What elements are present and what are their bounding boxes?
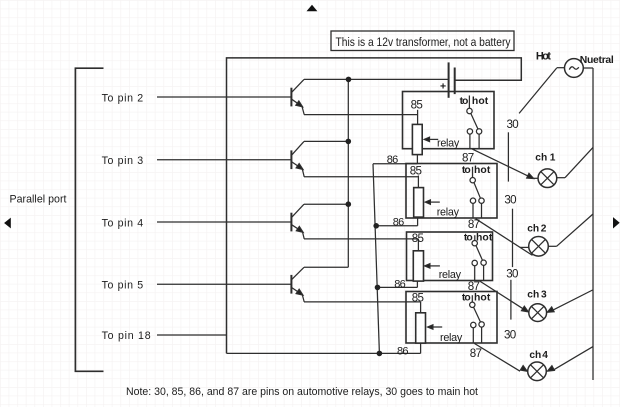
svg-text:4: 4 [542, 350, 548, 361]
relay4 box [406, 292, 497, 344]
svg-text:30: 30 [504, 329, 516, 342]
relay4 pin85 stub [420, 302, 422, 313]
relay1 pin30 contact [467, 108, 472, 113]
lamp ch1 [538, 169, 557, 188]
svg-text:ch: ch [527, 223, 539, 234]
wire pin3 base [157, 159, 291, 161]
svg-text:hot: hot [476, 233, 493, 244]
svg-text:To pin 4: To pin 4 [102, 217, 144, 229]
relay3 box [407, 232, 493, 281]
svg-text:87: 87 [462, 152, 474, 165]
svg-text:to: to [462, 293, 471, 304]
wire Q3 emitter to relay3 pin85 [304, 238, 418, 240]
svg-text:hot: hot [472, 96, 489, 107]
wire relay4 87 to lamp ch4 [474, 343, 520, 371]
relay1 coil [412, 124, 422, 154]
svg-text:to: to [462, 165, 471, 176]
relay3 pin87 contact [472, 260, 477, 265]
wire ch3 to neutral [551, 290, 593, 311]
AC source circle [565, 59, 584, 78]
svg-text:relay: relay [439, 269, 462, 281]
relay4 switch arm [474, 307, 481, 322]
viewer arrow left [4, 218, 11, 229]
relay3 coil [413, 251, 423, 281]
svg-text:85: 85 [412, 292, 424, 305]
svg-text:86: 86 [397, 346, 409, 358]
relay3 arrow [428, 265, 440, 267]
relay4 arrow [430, 326, 442, 328]
wire relay2 87 to lamp ch2 [476, 219, 533, 256]
relay1 coil-to-86 stub [416, 155, 418, 164]
junction node bottom common [377, 351, 383, 357]
relay4 to-hot stub [471, 295, 473, 302]
svg-text:relay: relay [440, 332, 463, 344]
svg-text:86: 86 [393, 216, 405, 228]
relay1 pin87a stub [478, 134, 480, 149]
wire collector bus (left) [347, 79, 349, 267]
svg-text:86: 86 [394, 279, 406, 291]
parallel port bracket [75, 68, 103, 371]
wire ch2 to neutral [557, 214, 593, 246]
svg-text:87: 87 [468, 218, 480, 231]
wire 30 bus segment 3 [510, 280, 512, 320]
junction node relay2 86 [373, 223, 379, 229]
relay1 to-hot stub [468, 96, 470, 109]
wire 30 bus segment 1 [507, 132, 509, 181]
wire relay3 pin86 [378, 286, 418, 288]
svg-text:Parallel port: Parallel port [10, 194, 67, 206]
wire ch4 to neutral [554, 347, 594, 370]
relay1 pin87 contact [467, 129, 472, 134]
junction node relay3 86 [375, 285, 381, 291]
wire ch2 right stub [548, 245, 556, 247]
wire ch1 to neutral [565, 147, 593, 177]
junction node Q2 collector [346, 139, 352, 145]
wire 86 bus (right, slanted) [373, 164, 379, 354]
wire AC right stub [583, 67, 593, 69]
wire Q2 collector [304, 140, 348, 142]
relay1 pin85 stub [417, 110, 419, 125]
wire hot diagonal [519, 68, 557, 113]
junction node Q1 collector / +12 [346, 77, 352, 83]
svg-text:30: 30 [506, 268, 518, 281]
svg-text:Nuetral: Nuetral [580, 55, 614, 66]
wire relay1 pin86 [373, 163, 417, 165]
wire bottom common to relay4 pin86 [227, 352, 421, 354]
svg-text:87: 87 [468, 280, 480, 293]
svg-text:This is a 12v transformer, not: This is a 12v transformer, not a battery [336, 35, 512, 49]
svg-text:3: 3 [541, 290, 547, 301]
wire ch1 right stub [557, 177, 565, 179]
wire Q1 emitter to relay1 pin85 [304, 114, 418, 116]
svg-text:30: 30 [507, 118, 519, 131]
wire pin18 to common box [157, 334, 227, 336]
relay3 pin87 stub [474, 266, 476, 281]
wire 30 bus segment 2 [512, 209, 514, 267]
relay1 box [403, 92, 495, 149]
wire +12V rail: Q1 collector to battery positive [304, 78, 449, 80]
relay2 to-hot stub [472, 167, 474, 178]
lamp ch2 [529, 237, 549, 257]
relay3 coil-to-86 stub [416, 281, 418, 287]
relay2 arrow [428, 201, 440, 203]
wire pin4 base [157, 221, 291, 223]
svg-text:to: to [464, 233, 473, 244]
battery plate positive [448, 62, 450, 97]
svg-text:relay: relay [437, 206, 460, 218]
relay2 pin85 stub [417, 176, 419, 188]
wire Q4 collector [304, 266, 348, 268]
wire Q3 collector [304, 203, 348, 205]
lamp ch3 [529, 304, 547, 322]
relay4 pin30 contact [470, 302, 475, 307]
relay2 pin87a stub [481, 203, 483, 218]
wire Q2 emitter to relay2 pin85 [304, 176, 418, 178]
junction node Q3 collector [346, 201, 352, 207]
wire relay3 87 to lamp ch3 [480, 281, 525, 310]
lamp ch4 [528, 362, 547, 381]
svg-text:Note: 30, 85, 86, and 87 are p: Note: 30, 85, 86, and 87 are pins on aut… [126, 386, 478, 398]
wire ch1 left stub [533, 177, 538, 179]
AC sine glyph [569, 67, 579, 70]
relay2 switch arm [474, 183, 480, 199]
relay3 to-hot stub [474, 235, 476, 240]
svg-text:85: 85 [412, 232, 424, 245]
transistor Q3 [291, 204, 304, 239]
svg-text:ch: ch [529, 350, 541, 361]
wire pin5 base [157, 283, 291, 285]
relay2 pin87a contact [479, 198, 484, 203]
svg-text:85: 85 [411, 99, 423, 112]
wire ch2 left stub [520, 246, 529, 248]
relay1 arrow [427, 138, 438, 140]
transistor Q1 [291, 79, 304, 114]
relay2 coil [414, 188, 424, 218]
svg-text:30: 30 [504, 193, 516, 206]
relay4 pin87 stub [472, 328, 474, 343]
svg-text:Hot: Hot [536, 51, 551, 63]
wire Q4 emitter to relay4 pin85 [304, 301, 421, 303]
note box around transformer text [331, 31, 514, 51]
svg-text:To pin 5: To pin 5 [102, 280, 144, 292]
wire common: big box from bottom-left up, across top, down to battery negative [227, 58, 522, 354]
wire pin2 base [157, 96, 291, 98]
relay4 pin87 contact [471, 322, 476, 327]
relay4 pin87a stub [481, 327, 483, 343]
svg-text:85: 85 [410, 165, 422, 178]
viewer arrow right [613, 217, 620, 228]
svg-text:To pin 3: To pin 3 [102, 155, 144, 167]
relay1 pin87a contact [476, 129, 481, 134]
svg-text:hot: hot [474, 165, 491, 176]
wire relay2 pin86 [376, 225, 417, 227]
relay3 pin85 stub [417, 239, 419, 251]
relay2 pin87 stub [472, 203, 474, 218]
battery plate negative [454, 68, 456, 95]
wire AC left stub [557, 67, 565, 69]
relay3 switch arm [476, 246, 483, 261]
svg-text:2: 2 [541, 223, 547, 234]
relay2 coil-to-86 stub [417, 217, 419, 226]
relay4 pin87a contact [479, 322, 484, 327]
svg-text:relay: relay [437, 137, 460, 149]
relay4 coil-to-86 stub [420, 343, 422, 353]
relay3 pin30 contact [472, 241, 477, 246]
svg-text:ch: ch [527, 290, 539, 301]
viewer arrow top [307, 5, 318, 12]
relay4 coil [416, 313, 426, 343]
relay2 pin87 contact [470, 198, 475, 203]
svg-text:To pin 2: To pin 2 [102, 92, 144, 104]
svg-text:+: + [440, 81, 446, 93]
relay3 pin87a contact [481, 260, 486, 265]
svg-text:1: 1 [550, 153, 556, 164]
transistor Q2 [291, 141, 304, 176]
svg-text:ch: ch [535, 153, 547, 164]
wire neutral bus [592, 68, 594, 380]
relay1 switch arm [471, 113, 478, 128]
svg-text:To pin 18: To pin 18 [102, 330, 151, 342]
relay1 pin87 stub [469, 134, 471, 149]
relay2 box [406, 164, 497, 219]
svg-text:87: 87 [470, 347, 482, 360]
wire relay1 87 to lamp ch1 [472, 149, 534, 179]
svg-text:hot: hot [474, 293, 491, 304]
relay2 pin30 contact [470, 178, 475, 183]
relay3 pin87a stub [483, 265, 485, 280]
svg-text:to: to [460, 96, 469, 107]
transistor Q4 [291, 267, 304, 302]
svg-text:86: 86 [387, 154, 399, 166]
